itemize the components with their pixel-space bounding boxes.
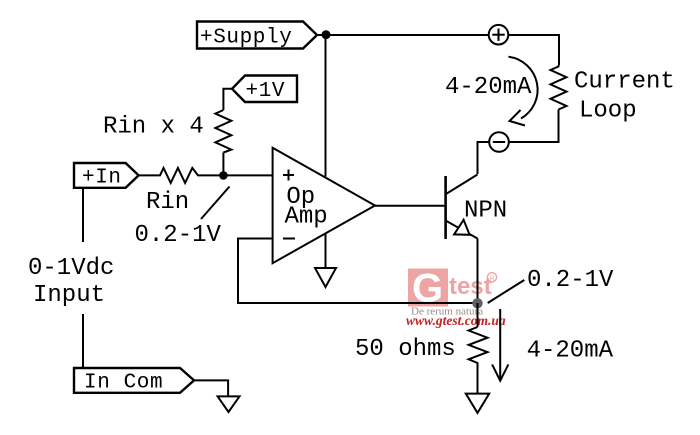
wire resistor to ground	[477, 366, 479, 394]
wire loop minus to collector	[478, 142, 490, 174]
svg-text:www.gtest.com.ua: www.gtest.com.ua	[406, 313, 506, 328]
wire +In flag to resistor Rin	[139, 174, 159, 176]
svg-text:NPN: NPN	[464, 198, 507, 225]
wire junction to resistor 50 ohms	[477, 303, 479, 327]
wire supply flag to junction	[317, 34, 326, 36]
svg-text:+In: +In	[82, 167, 122, 190]
svg-text:+Supply: +Supply	[200, 27, 292, 50]
arrow 4-20mA down	[492, 309, 508, 381]
watermark registered mark	[487, 273, 496, 283]
svg-text:4-20mA: 4-20mA	[527, 338, 614, 365]
wire emitter down	[477, 239, 479, 304]
svg-text:Rin: Rin	[146, 189, 189, 216]
svg-text:4-20mA: 4-20mA	[445, 74, 532, 101]
arc arrow current direction	[509, 57, 538, 126]
wire +1V flag to resistor	[223, 89, 232, 110]
wire resistor to input junction	[222, 153, 224, 176]
leader line 0.2-1V top	[201, 187, 230, 220]
svg-text:R: R	[490, 275, 495, 282]
resistor Rin	[159, 168, 201, 183]
op-amp U1	[273, 148, 375, 263]
svg-text:Amp: Amp	[285, 204, 328, 231]
flag +1V	[232, 76, 297, 104]
svg-text:Current: Current	[574, 69, 675, 96]
ground 50 ohms	[466, 394, 489, 413]
node emitter feedback junction	[472, 298, 482, 308]
watermark logo square G	[408, 267, 448, 311]
svg-text:0-1Vdc: 0-1Vdc	[28, 255, 114, 282]
wire op-amp supply drop	[325, 35, 327, 177]
leader line 0.2-1V bottom	[488, 280, 525, 303]
svg-text:test: test	[449, 273, 492, 300]
loop terminal minus	[489, 132, 509, 152]
wire op-amp output to base	[375, 205, 446, 207]
resistor Rin x 4	[215, 110, 231, 153]
wire loop plus to top right corner	[508, 35, 559, 65]
svg-text:0.2-1V: 0.2-1V	[135, 222, 222, 249]
wire In Com to ground	[194, 380, 228, 396]
svg-text:Loop: Loop	[579, 98, 637, 125]
wire loop resistor to loop minus	[509, 110, 559, 143]
wire feedback	[238, 239, 473, 304]
resistor current loop	[551, 65, 567, 110]
ground op-amp	[315, 268, 336, 287]
loop terminal plus	[489, 25, 509, 45]
flag +In	[74, 163, 139, 190]
resistor 50 ohms	[469, 327, 488, 366]
flag In Com	[74, 368, 194, 395]
wire Rin to op-amp plus input	[201, 174, 273, 176]
wire input down upper	[82, 189, 84, 242]
svg-text:Input: Input	[33, 282, 105, 309]
transistor Q1 NPN	[446, 175, 478, 240]
flag +Supply	[197, 22, 317, 50]
svg-text:50 ohms: 50 ohms	[355, 336, 456, 363]
svg-text:In Com: In Com	[84, 372, 163, 395]
ground In Com	[218, 396, 240, 412]
wire op-amp power to ground	[325, 234, 327, 269]
node input junction	[219, 171, 228, 180]
svg-text:Rin x 4: Rin x 4	[103, 114, 204, 141]
wire supply rail to loop plus	[326, 34, 489, 36]
svg-text:0.2-1V: 0.2-1V	[527, 267, 614, 294]
wire input down lower	[82, 314, 84, 368]
node supply junction	[322, 30, 331, 39]
svg-text:+1V: +1V	[246, 80, 286, 103]
